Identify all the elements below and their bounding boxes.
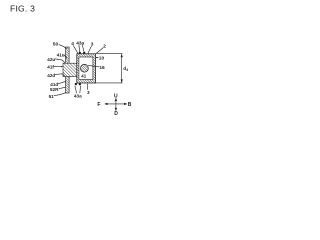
- leader 51: [54, 93, 66, 96]
- leader 50: [59, 45, 67, 49]
- housing 41 (hatched box walls): [77, 54, 96, 83]
- svg-text:3: 3: [87, 90, 90, 95]
- svg-text:B: B: [128, 102, 132, 108]
- svg-text:41u: 41u: [57, 53, 65, 58]
- svg-text:10: 10: [99, 55, 105, 61]
- svg-text:51: 51: [49, 94, 55, 99]
- svg-text:42u: 42u: [47, 57, 55, 62]
- projection 43a bottom bumps: [75, 83, 81, 85]
- strip 50 (vertical hatched plate): [66, 47, 70, 93]
- svg-text:52R: 52R: [50, 87, 59, 92]
- leader 16: [88, 65, 99, 66]
- bolt head circle in cavity: [81, 64, 89, 72]
- svg-text:41: 41: [81, 74, 86, 79]
- leader 41u: [64, 55, 67, 58]
- svg-text:FIG. 3: FIG. 3: [10, 4, 35, 14]
- leader 10: [96, 57, 99, 59]
- svg-text:d4: d4: [123, 66, 128, 72]
- svg-text:43a: 43a: [76, 40, 84, 46]
- coordinate cross axes: [104, 98, 127, 111]
- svg-text:41f: 41f: [47, 65, 54, 70]
- svg-text:F: F: [97, 102, 100, 108]
- leader 3 bottom: [86, 84, 89, 90]
- leader 4: [73, 45, 78, 53]
- leader 43a top left: [78, 45, 81, 52]
- leader 43a bottom right: [79, 86, 82, 94]
- leader 41f: [54, 66, 62, 68]
- shaft 41f (horizontal hatched channel): [63, 63, 77, 76]
- leader 52R: [59, 87, 66, 89]
- svg-text:42d: 42d: [47, 73, 55, 78]
- svg-text:2: 2: [103, 43, 106, 49]
- leader 41d: [58, 81, 66, 84]
- leader 42d: [55, 74, 65, 76]
- leader 42u: [55, 59, 66, 64]
- leader 3 top: [88, 46, 92, 54]
- svg-text:D: D: [114, 111, 118, 117]
- leader 2: [97, 48, 104, 54]
- dimension line d4: [121, 54, 123, 83]
- dimension extension lines: [96, 54, 123, 83]
- svg-text:43a: 43a: [74, 94, 82, 99]
- svg-text:U: U: [114, 93, 118, 99]
- leader 43a top right: [82, 45, 84, 52]
- svg-text:50: 50: [53, 42, 59, 48]
- svg-text:16: 16: [99, 65, 105, 71]
- leader 43a bottom left: [75, 86, 77, 93]
- projection 43a top bumps: [79, 52, 85, 54]
